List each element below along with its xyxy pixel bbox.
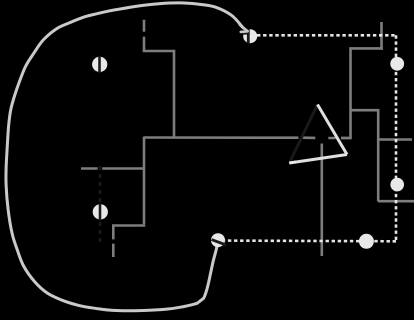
node: lower-left junction dot (93, 204, 108, 219)
node: bottom-left junction dot with dark diagonal (211, 233, 225, 247)
gray wire: stub y=139.5 to right edge (378, 138, 412, 141)
node: top junction dot at arrow (243, 29, 257, 43)
gray wire: main horizontal bus y=137.5 (144, 136, 351, 139)
gray wire: top-left vertical segment (with sketch gap) (143, 20, 146, 51)
gray wire: center vertical x=321.8 (320, 144, 323, 257)
node: upper-left junction dot (92, 57, 107, 72)
gray wire: top-right vertical x=381.5 (380, 22, 383, 50)
dashed wire: top horizontal net (257, 34, 396, 37)
transistor arrow: dark left edge (289, 105, 317, 164)
transistor arrow: light bottom edge (289, 155, 347, 164)
gray wire: stub at y=168.5 (81, 167, 144, 170)
gray wire: corner to x=174 (143, 51, 174, 138)
node: terminal dot bottom (359, 234, 374, 249)
dark dashed wire through lower-left node (99, 166, 102, 245)
arrowhead of loop wire (240, 25, 248, 32)
wire: large curved feedback loop (6, 3, 243, 311)
node: terminal dot right lower (390, 178, 404, 192)
gray wire: left vertical x=144 down (143, 137, 146, 225)
dashed wire: right vertical net (395, 35, 398, 241)
dashed wire: bottom horizontal net (225, 239, 396, 242)
gray wire: branch y=110 to x=378 (351, 110, 379, 201)
transistor arrow: light right edge (318, 105, 348, 155)
gray wire: stub y=201 to right edge (378, 200, 414, 203)
transistor arrow: corner tick (289, 162, 296, 163)
gray wire: corner to x=113 and down (sketch gap) (113, 226, 145, 258)
node: terminal dot right upper (390, 57, 404, 71)
gray wire: corner into x=351 vertical (341, 48, 383, 138)
